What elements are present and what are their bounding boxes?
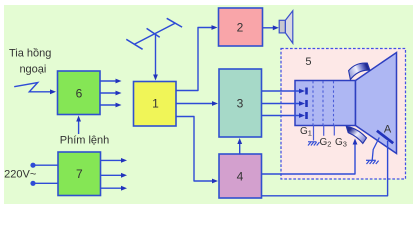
deflection coil bottom (346, 126, 366, 143)
block 6 (remote receiver) (58, 71, 101, 115)
dashed enclosure box 5 (CRT block) (281, 49, 406, 180)
cathode bar 1 (305, 88, 308, 95)
svg-text:4: 4 (237, 170, 244, 184)
wire box1 to box3 (176, 103, 213, 105)
CRT funnel/screen (356, 53, 397, 154)
ground (anode) (366, 160, 379, 164)
wire box1 to box2 (176, 28, 212, 91)
mains input line 2 (30, 181, 35, 186)
wire box4 to deflection coil (262, 142, 356, 174)
wire box3 to cathode 2 (262, 103, 301, 105)
wire antenna to box1 (155, 33, 157, 76)
svg-text:1: 1 (152, 97, 159, 111)
svg-text:7: 7 (76, 167, 83, 181)
deflection coil top (349, 63, 370, 80)
block 1 (tuner) (134, 82, 177, 127)
svg-text:2: 2 (237, 21, 244, 35)
cathode bar 3 (305, 112, 308, 119)
svg-text:Phím lệnh: Phím lệnh (60, 134, 110, 146)
grid G3 dashed electrode (333, 81, 335, 125)
wire box1 to box4 (176, 117, 213, 182)
svg-text:5: 5 (305, 56, 311, 68)
CRT neck (295, 81, 356, 126)
wire box3 to cathode 3 (262, 115, 301, 117)
antenna (126, 18, 182, 49)
wire anode to ground (372, 138, 379, 161)
cathode bar 2 (305, 100, 308, 107)
box6 output arrow 1 (100, 80, 117, 82)
box7 output arrow 2 (101, 174, 123, 176)
block 3 (video amp) (219, 69, 262, 137)
wire infrared zigzag into box6 (14, 83, 51, 92)
box7 output arrow 1 (101, 159, 123, 161)
box6 output arrow 2 (100, 92, 117, 94)
box7 output arrow 3 (101, 187, 123, 189)
wire box4 to box3 (239, 142, 241, 154)
svg-text:Tia hồng: Tia hồng (9, 48, 51, 60)
speaker (279, 20, 285, 33)
svg-text:A: A (384, 123, 392, 135)
block 4 (sync/deflection) (219, 154, 262, 198)
wire box3 to cathode 1 (262, 90, 301, 92)
anode A line (377, 131, 393, 144)
wire keypad to box6 (78, 120, 80, 134)
svg-text:ngoại: ngoại (19, 64, 46, 76)
grid G2 dashed electrode (322, 81, 324, 125)
block 7 (power supply) (58, 152, 101, 196)
svg-text:6: 6 (76, 86, 83, 100)
grid G1 dashed electrode (312, 81, 314, 125)
block 2 (audio amp) (219, 8, 263, 46)
mains input line 1 (30, 163, 35, 168)
wire box4 to anode (262, 141, 388, 196)
svg-text:3: 3 (237, 97, 244, 111)
box6 output arrow 3 (100, 104, 117, 106)
ground (G1) (308, 142, 320, 146)
wire box2 to speaker (262, 27, 274, 29)
svg-text:220V~: 220V~ (4, 168, 36, 180)
